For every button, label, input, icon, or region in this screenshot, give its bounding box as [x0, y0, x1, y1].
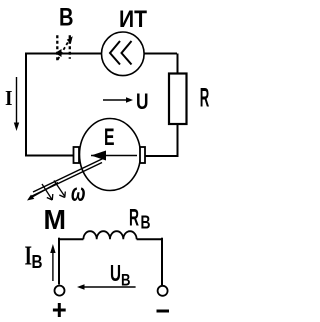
switch B arrowhead on wire [55, 49, 62, 57]
brush left [74, 147, 80, 163]
switch B dashed vertical left [56, 35, 58, 61]
wire top-left horizontal [25, 53, 102, 55]
switch B dashed vertical right [69, 35, 71, 59]
wire top-right horizontal [145, 53, 178, 55]
terminal + circle [55, 286, 65, 296]
svg-text:ω: ω [71, 179, 86, 207]
resistor R body [169, 74, 187, 125]
svg-text:U: U [110, 260, 121, 286]
svg-text:В: В [32, 252, 43, 272]
IT chevron left [110, 41, 120, 65]
IT chevron right [122, 41, 132, 65]
torque M arrow [30, 183, 59, 199]
wire field right vertical [161, 238, 163, 285]
plus terminal label [53, 303, 66, 317]
wire right vertical upper [177, 54, 179, 74]
switch B dashed diagonal [58, 38, 71, 60]
switch B arrowhead on diagonal [67, 36, 73, 44]
wire bottom-left horizontal to brush [25, 155, 74, 157]
minus terminal label [157, 310, 170, 313]
EMF arrow inside motor [91, 155, 137, 157]
wire field top horizontal [59, 238, 162, 240]
svg-text:R: R [200, 83, 210, 113]
omega rotation arrow 1 [42, 184, 52, 200]
wire left vertical [25, 53, 27, 157]
svg-text:U: U [136, 89, 149, 114]
omega rotation arrow 2 [54, 181, 65, 197]
wire right horizontal to brush [145, 155, 177, 157]
svg-text:В: В [141, 213, 151, 233]
field voltage Uv arrow [82, 286, 136, 288]
brush right [140, 147, 145, 163]
svg-text:R: R [129, 205, 139, 232]
svg-text:В: В [59, 4, 74, 32]
field current Iv arrow [52, 251, 54, 281]
svg-text:В: В [121, 271, 131, 290]
svg-text:ИТ: ИТ [119, 6, 147, 33]
terminal - circle [158, 286, 168, 296]
wire right vertical lower [177, 124, 179, 157]
current I arrow [16, 77, 18, 125]
motor circle E [80, 119, 141, 191]
voltage U arrow [103, 99, 128, 101]
svg-text:I: I [5, 86, 13, 110]
shaft double line [33, 158, 104, 192]
svg-text:M: M [44, 204, 67, 235]
current source circle IT [102, 32, 145, 76]
svg-text:E: E [104, 124, 115, 151]
wire field left vertical [58, 238, 60, 285]
inductor Rv (field winding) [83, 231, 136, 239]
